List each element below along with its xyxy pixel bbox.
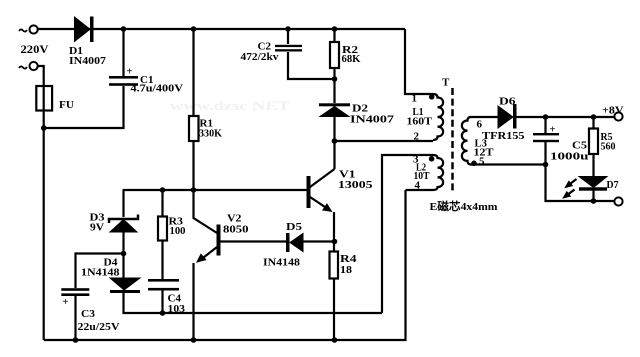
svg-text:D5: D5 <box>286 221 303 233</box>
svg-text:C3: C3 <box>81 308 96 320</box>
svg-text:103: 103 <box>168 303 186 315</box>
svg-text:IN4007: IN4007 <box>350 114 395 126</box>
svg-text:68K: 68K <box>342 53 361 65</box>
svg-text:D7: D7 <box>607 179 619 191</box>
svg-text:160T: 160T <box>407 116 433 128</box>
svg-text:E磁芯4x4mm: E磁芯4x4mm <box>430 199 498 213</box>
svg-text:D6: D6 <box>499 96 516 108</box>
svg-text:1N4148: 1N4148 <box>81 267 120 279</box>
svg-text:472/2kv: 472/2kv <box>241 51 280 63</box>
svg-text:330K: 330K <box>199 128 222 140</box>
svg-text:4.7u/400V: 4.7u/400V <box>131 83 184 95</box>
svg-text:6: 6 <box>477 119 483 131</box>
svg-text:4: 4 <box>415 180 421 192</box>
svg-text:TFR155: TFR155 <box>482 130 525 142</box>
svg-text:+8V: +8V <box>602 105 624 117</box>
svg-text:9V: 9V <box>90 222 104 234</box>
svg-text:560: 560 <box>601 141 616 153</box>
svg-text:2: 2 <box>414 131 420 143</box>
svg-text:IN4007: IN4007 <box>69 55 107 67</box>
svg-text:5: 5 <box>479 156 485 168</box>
svg-text:1000u: 1000u <box>550 151 589 163</box>
svg-text:100: 100 <box>170 225 186 237</box>
svg-text:13005: 13005 <box>338 179 373 191</box>
svg-text:18: 18 <box>340 264 353 276</box>
svg-text:IN4148: IN4148 <box>263 257 301 269</box>
svg-text:220V: 220V <box>21 44 50 56</box>
svg-text:+: + <box>550 125 556 136</box>
svg-text:8050: 8050 <box>223 224 249 236</box>
svg-text:FU: FU <box>59 99 74 111</box>
svg-text:T: T <box>442 77 450 89</box>
svg-text:+: + <box>63 297 69 308</box>
svg-text:1: 1 <box>412 93 418 105</box>
svg-text:www.dzsc NET: www.dzsc NET <box>170 98 290 113</box>
svg-text:+: + <box>127 67 133 78</box>
svg-text:22u/25V: 22u/25V <box>78 321 120 333</box>
